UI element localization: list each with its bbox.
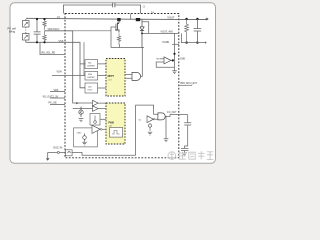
resistor R3 xyxy=(117,33,120,44)
wire G2 out FC_OUT xyxy=(165,115,187,117)
svg-text:PGND: PGND xyxy=(163,42,170,44)
junction dots top rail xyxy=(36,18,199,44)
PV cell PV2 xyxy=(23,34,30,41)
svg-text:VDD_MCU_EXT: VDD_MCU_EXT xyxy=(180,83,198,85)
transistor M2 with gnd xyxy=(79,107,83,118)
current source I3 xyxy=(148,123,151,131)
svg-text:LX: LX xyxy=(57,16,60,19)
wire A5 feedback loop xyxy=(156,62,174,67)
wire box taps xyxy=(80,64,85,76)
wire bottom rail VSS xyxy=(26,41,65,43)
svg-text:VDH: VDH xyxy=(88,74,93,76)
svg-text:FC_OUT: FC_OUT xyxy=(167,112,177,114)
block PWM (yellow) xyxy=(106,103,125,144)
gate G2 xyxy=(158,113,165,120)
svg-text:Wing: Wing xyxy=(9,30,16,34)
watermark text xyxy=(179,151,213,159)
svg-text:ctrl: ctrl xyxy=(108,78,111,81)
wire Q1 gate xyxy=(111,27,116,48)
comparator A3 xyxy=(92,125,100,133)
wire pin stub xyxy=(130,14,132,20)
resistor R2 xyxy=(43,31,46,43)
PV cell PV1 xyxy=(23,21,30,28)
svg-text:Cf: Cf xyxy=(143,5,146,9)
wire internal bus V1 xyxy=(65,31,93,103)
wire A5 out node xyxy=(171,59,175,61)
op-amp A5 error amp xyxy=(164,57,171,64)
svg-text:LIMITER: LIMITER xyxy=(87,77,95,79)
wire buffers in/out xyxy=(73,103,106,109)
buffer A1 xyxy=(93,100,99,106)
ground GND5 xyxy=(172,71,177,74)
svg-text:VOUT: VOUT xyxy=(167,15,175,19)
svg-text:VDL: VDL xyxy=(88,63,92,65)
ground GND4 xyxy=(164,139,169,142)
wire gnd drop G2 xyxy=(165,116,167,138)
wire mux arrow xyxy=(76,102,79,104)
svg-text:VD3: VD3 xyxy=(54,89,59,92)
gate G1 xyxy=(132,72,141,80)
IC U1 dashed boundary xyxy=(65,14,179,158)
svg-text:LBO: LBO xyxy=(77,133,82,135)
wire VOUT_4V0 pin xyxy=(175,32,180,34)
svg-text:VOUT_4V0: VOUT_4V0 xyxy=(161,30,174,33)
svg-text:LIMITER: LIMITER xyxy=(87,65,95,67)
wire top rail LX/VOUT xyxy=(26,18,207,19)
ground GND1 xyxy=(79,119,84,122)
block OSC xyxy=(90,114,100,126)
svg-text:ctrl: ctrl xyxy=(109,125,112,128)
wire PGND stub xyxy=(172,43,179,45)
page frame xyxy=(10,3,216,164)
block LBO detector xyxy=(74,128,98,147)
svg-text:OSC IN: OSC IN xyxy=(53,145,62,149)
ground GND3 xyxy=(148,132,152,135)
current source I2 gnd xyxy=(83,133,87,141)
comparator A4 xyxy=(147,116,153,123)
block PWM sub-box xyxy=(110,128,123,138)
svg-text:PK_GE: PK_GE xyxy=(49,102,58,105)
block MPPT (yellow) xyxy=(106,59,125,97)
capacitor C5 xyxy=(113,3,115,8)
capacitor C2 xyxy=(194,19,202,43)
wire right bottom rail xyxy=(181,33,206,42)
diode D1 xyxy=(140,19,144,47)
wire parallel branch xyxy=(83,42,85,75)
wire UVLO tap xyxy=(45,30,66,32)
svg-text:GND: GND xyxy=(180,59,185,61)
wire pin VD_OUT2 xyxy=(50,97,65,99)
wire pin VD3 xyxy=(50,91,65,93)
wire PV column xyxy=(25,19,27,42)
capacitor C4 ext xyxy=(181,133,188,153)
svg-text:VDH: VDH xyxy=(57,70,62,73)
wire OSC ext stub xyxy=(48,151,58,153)
resistor R4 xyxy=(185,19,189,43)
svg-text:MPPT: MPPT xyxy=(108,76,115,78)
wire pin PK_GE xyxy=(50,103,65,105)
resistor R1 xyxy=(43,19,46,30)
wire OSC to PWM xyxy=(100,118,106,120)
watermark logo xyxy=(168,152,176,160)
svg-text:PWM: PWM xyxy=(108,122,114,124)
wire top loop C5 xyxy=(63,5,112,14)
wire VDL_RDY stub xyxy=(40,42,65,54)
block VDL limiter xyxy=(85,60,98,69)
ground GND2 xyxy=(82,142,87,145)
wire internal VSS branch xyxy=(65,42,85,88)
block LDO xyxy=(85,83,98,93)
buffer A2 xyxy=(93,106,99,112)
svg-text:OUT2: OUT2 xyxy=(87,89,92,91)
wire UVLO to gate loop xyxy=(73,30,111,32)
transistor Q1 xyxy=(117,19,119,32)
wire G1 out xyxy=(141,48,143,77)
wire A3 out xyxy=(102,128,106,130)
wire OSC bus bottom xyxy=(72,152,136,155)
svg-text:LDO: LDO xyxy=(88,86,92,88)
block XIN buffer xyxy=(66,150,73,156)
terminal VOUT arrow xyxy=(205,18,208,20)
wire D1 bypass loop xyxy=(142,22,149,34)
wire VOUT_4V0 net xyxy=(142,32,175,34)
svg-text:VD_OUT2_3V: VD_OUT2_3V xyxy=(43,95,59,98)
svg-text:VSS: VSS xyxy=(59,40,64,43)
wire PWM loop to comparator xyxy=(136,105,158,155)
wire bus B1 xyxy=(111,47,144,49)
block VDH limiter xyxy=(85,71,98,80)
wire A5 plus in xyxy=(160,58,165,60)
wire blocks to MPPT xyxy=(98,64,106,88)
capacitor C1 xyxy=(34,19,41,42)
wire VDH stub xyxy=(52,75,80,77)
svg-text:VDD,UVLO: VDD,UVLO xyxy=(48,29,60,31)
svg-text:VDL,VDL_RD: VDL,VDL_RD xyxy=(41,53,56,55)
capacitor C3 ext xyxy=(187,115,189,123)
